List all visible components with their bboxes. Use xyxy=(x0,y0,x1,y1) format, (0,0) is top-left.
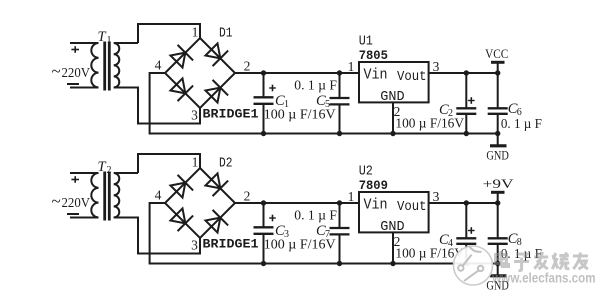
svg-text:BRIDGE1: BRIDGE1 xyxy=(203,236,259,251)
svg-text:1: 1 xyxy=(106,35,111,46)
capacitor C6 xyxy=(488,73,508,134)
wire bridge node 4 to ground rail xyxy=(150,73,498,134)
junction C3 bottom xyxy=(261,261,266,266)
capacitor C4 xyxy=(456,203,476,264)
junction C1 top xyxy=(261,70,266,75)
svg-text:3: 3 xyxy=(191,238,198,253)
svg-text:100 µ F/16V: 100 µ F/16V xyxy=(395,116,464,131)
junction C5 bottom xyxy=(337,131,342,136)
diode D1.4 (3 to 2) xyxy=(205,80,228,103)
transformer T2 primary winding xyxy=(70,173,99,217)
ground symbol xyxy=(490,264,507,276)
diode D1.2 (1 to 2) xyxy=(205,43,228,66)
svg-text:220V: 220V xyxy=(62,65,91,80)
junction C2 top xyxy=(464,70,469,75)
wire U2 Vout pin 3 to +9V xyxy=(429,202,498,204)
svg-text:4: 4 xyxy=(155,58,162,73)
transformer T1 primary winding xyxy=(70,43,99,87)
bridge rectifier D1 diamond xyxy=(165,38,235,108)
svg-text:7809: 7809 xyxy=(359,178,388,193)
svg-text:0. 1 µ F: 0. 1 µ F xyxy=(294,208,337,223)
capacitor C7 xyxy=(330,203,350,264)
junction C4 bottom xyxy=(464,261,469,266)
svg-text:1: 1 xyxy=(348,59,355,74)
capacitor C2 xyxy=(456,73,476,134)
svg-text:2: 2 xyxy=(106,165,111,176)
diode D2.1 (4 to 1) xyxy=(170,175,193,198)
junction C2 bottom xyxy=(464,131,469,136)
svg-text:T: T xyxy=(98,29,107,45)
transformer T2 core xyxy=(105,172,110,221)
bridge rectifier D2 diamond xyxy=(165,168,235,238)
svg-text:100 µ F/16V: 100 µ F/16V xyxy=(264,107,336,122)
svg-text:~: ~ xyxy=(52,62,61,81)
svg-text:220V: 220V xyxy=(62,195,91,210)
svg-text:GND: GND xyxy=(486,148,508,163)
regulator U2 7809 box xyxy=(359,192,429,232)
svg-text:BRIDGE1: BRIDGE1 xyxy=(203,106,259,121)
wire U2 pin 2 (GND) to ground rail xyxy=(392,232,394,263)
capacitor C3 xyxy=(254,203,276,264)
svg-text:100 µ F/16V: 100 µ F/16V xyxy=(264,237,336,252)
power symbol +9V xyxy=(491,192,505,203)
svg-text:D2: D2 xyxy=(219,156,233,171)
svg-text:1: 1 xyxy=(192,155,199,170)
svg-text:D1: D1 xyxy=(219,26,233,41)
junction VCC rail xyxy=(495,70,500,75)
junction pin2 ground xyxy=(390,261,395,266)
wire secondary top to bridge node 1 xyxy=(138,154,200,173)
svg-text:1: 1 xyxy=(192,25,199,40)
svg-text:Vin: Vin xyxy=(364,67,388,83)
label primary plus xyxy=(71,46,79,53)
transformer T1 core xyxy=(105,42,110,91)
svg-text:100 µ F/16V: 100 µ F/16V xyxy=(395,246,464,261)
junction C4 top xyxy=(464,200,469,205)
svg-text:GND: GND xyxy=(380,220,404,235)
capacitor C5 xyxy=(330,73,350,134)
svg-text:4: 4 xyxy=(155,188,162,203)
svg-text:3: 3 xyxy=(433,59,440,74)
svg-text:0. 1 µ F: 0. 1 µ F xyxy=(501,116,542,131)
svg-text:GND: GND xyxy=(380,90,404,105)
junction +9V rail xyxy=(495,200,500,205)
svg-text:7805: 7805 xyxy=(359,48,388,63)
power symbol VCC xyxy=(491,62,505,73)
svg-text:Vout: Vout xyxy=(397,199,427,215)
wire bridge node 2 to U1 Vin (positive rail) xyxy=(235,72,359,74)
svg-text:Vin: Vin xyxy=(364,197,388,213)
junction C7 top xyxy=(337,200,342,205)
diode D1.1 (4 to 1) xyxy=(170,45,193,68)
svg-text:1: 1 xyxy=(348,189,355,204)
ground symbol xyxy=(490,134,507,146)
junction ground rail end xyxy=(495,131,500,136)
svg-text:0. 1 µ F: 0. 1 µ F xyxy=(294,78,337,93)
wire bridge node 2 to U2 Vin (positive rail) xyxy=(235,202,359,204)
capacitor C1 xyxy=(254,73,276,134)
junction C1 bottom xyxy=(261,131,266,136)
junction C3 top xyxy=(261,200,266,205)
wire secondary bottom to bridge node 3 xyxy=(114,218,200,254)
label primary minus xyxy=(67,213,79,215)
svg-text:3: 3 xyxy=(433,189,440,204)
diode D2.4 (3 to 2) xyxy=(205,210,228,233)
label primary plus xyxy=(71,176,79,183)
wire secondary bottom to bridge node 3 xyxy=(114,88,200,124)
wire bridge node 4 to ground rail xyxy=(150,203,498,264)
label primary minus xyxy=(67,83,79,85)
wire secondary top to bridge node 1 xyxy=(138,24,200,43)
svg-text:Vout: Vout xyxy=(397,69,427,85)
transformer T2 secondary winding xyxy=(114,173,138,218)
svg-text:2: 2 xyxy=(244,59,251,74)
junction C7 bottom xyxy=(337,261,342,266)
svg-text:~: ~ xyxy=(52,192,61,211)
wire U1 pin 2 (GND) to ground rail xyxy=(392,102,394,133)
svg-text:2: 2 xyxy=(244,189,251,204)
svg-text:+9V: +9V xyxy=(483,176,515,191)
svg-text:www.elecfans.com: www.elecfans.com xyxy=(491,271,595,286)
regulator U1 7805 box xyxy=(359,62,429,102)
diode D2.2 (1 to 2) xyxy=(205,173,228,196)
wire U1 Vout pin 3 to VCC xyxy=(429,72,498,74)
svg-text:VCC: VCC xyxy=(485,46,508,61)
junction pin2 ground xyxy=(390,131,395,136)
svg-text:T: T xyxy=(98,159,107,175)
diode D2.3 (4 to 3) xyxy=(170,208,193,231)
junction ground rail end xyxy=(495,261,500,266)
svg-text:3: 3 xyxy=(191,108,198,123)
junction C5 top xyxy=(337,70,342,75)
watermark logo circle xyxy=(454,246,493,285)
diode D1.3 (4 to 3) xyxy=(170,78,193,101)
transformer T1 secondary winding xyxy=(114,43,138,88)
capacitor C8 xyxy=(488,203,508,264)
watermark text dian zi fa shao you (drawn strokes) xyxy=(496,251,588,271)
